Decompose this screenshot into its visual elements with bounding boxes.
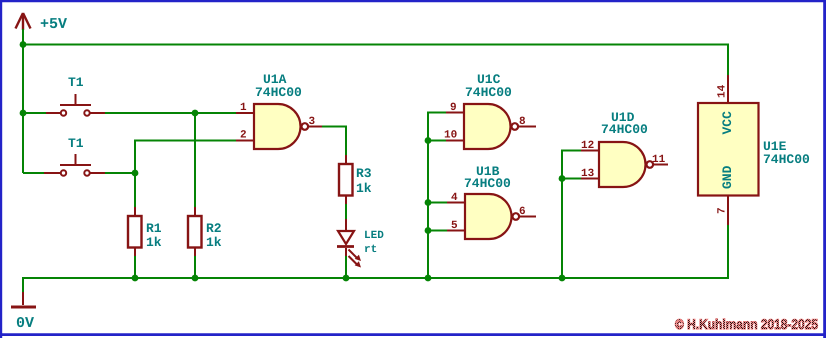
svg-text:4: 4 — [451, 192, 458, 204]
wire U1D pin13 stub — [562, 178, 581, 180]
pin 5 lead — [447, 230, 465, 232]
svg-text:12: 12 — [581, 140, 594, 152]
wire bottom rail — [23, 277, 728, 279]
wire switch2 to junction — [105, 172, 135, 174]
svg-text:74HC00: 74HC00 — [464, 176, 511, 191]
wire switch1 row left — [23, 112, 47, 114]
pin 7 lead — [727, 196, 729, 226]
wire R3 to LED — [345, 204, 347, 220]
pin 2 lead — [236, 140, 254, 142]
node feed pin13 — [559, 175, 566, 182]
svg-text:R2: R2 — [206, 221, 222, 236]
wire U1B pin5 stub — [428, 230, 447, 232]
output bubble U1C — [512, 123, 519, 130]
svg-text:rt: rt — [364, 244, 377, 256]
resistor R1 — [134, 207, 136, 216]
pin 1 lead — [236, 112, 254, 114]
node junction after switch2 — [132, 170, 139, 177]
power symbol +5V arrow — [16, 13, 31, 30]
gate U1D 74HC00 — [599, 142, 646, 187]
svg-text:3: 3 — [309, 116, 316, 128]
svg-text:1: 1 — [240, 102, 247, 114]
wire LED to rail — [345, 256, 347, 278]
resistor R2 — [194, 207, 196, 216]
svg-text:LED: LED — [364, 230, 384, 242]
svg-text:2: 2 — [240, 130, 247, 142]
node junction at R2 column on switch1 row — [192, 110, 199, 117]
svg-text:1k: 1k — [206, 235, 222, 250]
svg-text:74HC00: 74HC00 — [601, 122, 648, 137]
svg-text:74HC00: 74HC00 — [465, 85, 512, 100]
svg-text:8: 8 — [519, 116, 526, 128]
node rail junctions — [132, 275, 139, 282]
svg-text:10: 10 — [444, 130, 457, 142]
node top-left junction — [20, 41, 27, 48]
switch T1 (upper pushbutton) — [46, 94, 105, 116]
svg-text:1k: 1k — [146, 235, 162, 250]
node switch1 left tee — [20, 110, 27, 117]
svg-text:13: 13 — [581, 168, 595, 180]
svg-text:VCC: VCC — [720, 111, 735, 135]
wire left vertical — [22, 29, 24, 173]
wire U1C pin10 stub — [428, 140, 446, 142]
svg-text:T1: T1 — [68, 75, 84, 90]
svg-text:5: 5 — [451, 220, 458, 232]
pin 13 lead — [581, 178, 599, 180]
svg-text:R1: R1 — [146, 221, 162, 236]
wire top rail drop to U1E pin 14 — [727, 44, 729, 76]
wire switch2 row left — [23, 172, 46, 174]
svg-text:74HC00: 74HC00 — [255, 85, 302, 100]
gate U1B 74HC00 — [465, 194, 512, 239]
svg-text:0V: 0V — [16, 315, 34, 332]
svg-text:+5V: +5V — [40, 16, 67, 33]
wire rail left end down to ground — [22, 277, 24, 293]
wire U1A output to R3 column — [322, 127, 346, 157]
wire switch1 to U1A pin1 — [105, 112, 236, 114]
svg-text:74HC00: 74HC00 — [763, 152, 810, 167]
wire U1D pin12 stub — [561, 150, 581, 152]
svg-text:1k: 1k — [356, 181, 372, 196]
node feed pin10 — [425, 137, 432, 144]
pin 11 lead — [654, 164, 669, 166]
output bubble U1A — [302, 123, 309, 130]
pin 9 lead — [446, 112, 464, 114]
svg-text:© H.Kuhlmann 2018-2025: © H.Kuhlmann 2018-2025 — [675, 316, 818, 332]
wire R2 column — [194, 113, 196, 208]
switch T1 (lower pushbutton) — [44, 154, 105, 176]
output bubble U1D — [647, 161, 654, 168]
wire U1B pin4 stub — [428, 202, 447, 204]
pin 14 lead — [727, 75, 729, 103]
svg-text:6: 6 — [519, 206, 526, 218]
wire top rail — [23, 44, 728, 46]
gate U1C 74HC00 — [464, 104, 511, 149]
node feed pin4 — [425, 199, 432, 206]
gate U1A 74HC00 — [254, 104, 301, 149]
pin 3 lead — [309, 126, 324, 128]
resistor R3 — [345, 155, 347, 164]
wire U1C/U1B feed vertical — [427, 113, 429, 279]
ground symbol — [22, 292, 24, 305]
LED emission arrows — [349, 250, 362, 268]
IC U1E power unit body — [698, 103, 759, 196]
wire R1 column — [134, 172, 136, 208]
svg-text:9: 9 — [450, 102, 457, 114]
LED D1 rt — [345, 219, 347, 231]
node feed pin5 — [425, 227, 432, 234]
pin 6 lead — [520, 216, 537, 218]
svg-text:GND: GND — [720, 165, 735, 189]
svg-text:R3: R3 — [356, 166, 372, 181]
pin 10 lead — [446, 140, 464, 142]
svg-text:11: 11 — [652, 154, 666, 166]
pin 4 lead — [447, 202, 465, 204]
wire junction up and right to U1A pin2 — [135, 141, 236, 174]
svg-text:7: 7 — [717, 207, 729, 214]
pin 8 lead — [519, 126, 537, 128]
svg-text:14: 14 — [717, 84, 729, 98]
wire U1D feed vertical — [561, 151, 563, 279]
wire rail right end up to U1E pin 7 — [727, 224, 729, 279]
wire U1C pin9 stub — [427, 112, 446, 114]
output bubble U1B — [513, 213, 520, 220]
svg-text:T1: T1 — [68, 136, 84, 151]
pin 12 lead — [581, 150, 599, 152]
